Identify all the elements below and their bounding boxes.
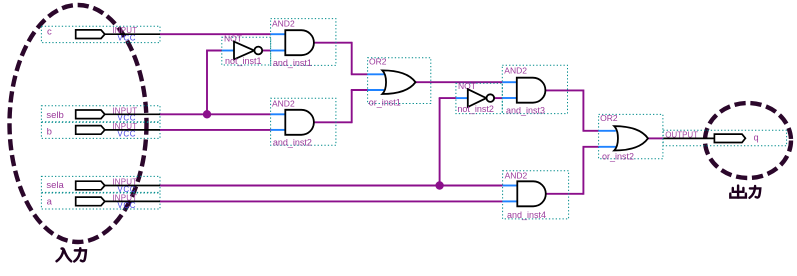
not_inst1 : triangle body <box>234 42 254 60</box>
svg-text:AND2: AND2 <box>505 171 528 181</box>
svg-text:b: b <box>47 126 52 137</box>
input pin selb : black stub wire <box>104 113 160 115</box>
svg-text:or_inst1: or_inst1 <box>369 97 401 107</box>
output group dashed ellipse <box>705 103 791 178</box>
and_inst3 : input stub B <box>502 97 517 99</box>
wire net sela : branch horizontal to not_inst2 input <box>439 97 456 99</box>
wire not_inst1 output to and_inst1 input B <box>262 50 271 52</box>
svg-text:and_inst2: and_inst2 <box>273 137 312 147</box>
output pin q : flag symbol <box>714 134 745 142</box>
label 入力 <box>57 248 86 261</box>
wire and_inst3 output to or_inst2 input A <box>583 130 599 132</box>
wire net sela : pin sela to and_inst4 input A <box>160 185 503 187</box>
and_inst3 : selection box <box>502 65 567 113</box>
svg-text:OR2: OR2 <box>600 113 618 123</box>
wire and_inst1 output to or_inst1 input A <box>351 73 368 75</box>
wire net selb : branch vertical to not_inst1 <box>206 51 208 115</box>
and_inst1 : input stub B <box>271 50 286 52</box>
input pin a : flag symbol <box>76 197 105 206</box>
wire net selb : branch horizontal to not_inst1 input <box>206 50 222 52</box>
and_inst2 : selection box <box>271 98 336 145</box>
and_inst2 : input stub A <box>271 113 286 115</box>
and_inst4 : selection box <box>503 171 569 219</box>
and_inst4 : gate body <box>517 181 546 206</box>
input pin b : selection box <box>41 122 160 138</box>
input pin sela : selection box <box>41 176 160 192</box>
and_inst1 : gate body <box>285 30 314 55</box>
wire and_inst3 output horizontal <box>545 89 583 91</box>
and_inst1 : selection box <box>271 19 336 66</box>
svg-text:and_inst1: and_inst1 <box>273 58 312 68</box>
input pin selb : flag symbol <box>76 110 105 119</box>
svg-text:and_inst4: and_inst4 <box>507 210 546 220</box>
input pin a : selection box <box>41 193 160 209</box>
not_inst2 : triangle body <box>468 89 487 107</box>
wire or_inst1 output to and_inst3 input A <box>416 81 503 83</box>
svg-text:c: c <box>47 26 52 37</box>
svg-text:sela: sela <box>46 180 64 191</box>
not_inst1 : input stub <box>222 50 234 52</box>
svg-text:AND2: AND2 <box>272 98 295 108</box>
not_inst1 : selection box <box>222 37 271 65</box>
or_inst2 : gate body <box>614 126 648 150</box>
input pin b : flag symbol <box>76 126 105 135</box>
svg-text:OR2: OR2 <box>369 56 387 66</box>
and_inst3 : input stub A <box>502 81 517 83</box>
wire and_inst4 output to or_inst2 input B <box>583 146 599 148</box>
or_inst1 : input stub B <box>368 89 384 91</box>
input pin c : flag symbol <box>76 30 105 39</box>
and_inst4 : input stub B <box>503 200 518 202</box>
input pin sela : black stub wire <box>104 185 160 187</box>
or_inst2 : input stub B <box>599 146 616 148</box>
wire and_inst2 output horizontal <box>314 121 352 123</box>
wire and_inst4 output vertical up <box>582 147 584 195</box>
input pin sela : flag symbol <box>76 181 105 190</box>
svg-text:selb: selb <box>46 110 63 121</box>
output pin q : selection box <box>663 130 786 146</box>
wire or_inst2 output to output pin q <box>648 137 663 139</box>
wire and_inst4 output horizontal <box>546 193 584 195</box>
input pin b : black stub wire <box>104 129 160 131</box>
input pin c : selection box <box>41 26 160 42</box>
or_inst1 : input stub A <box>368 73 384 75</box>
and_inst3 : gate body <box>517 78 546 103</box>
label 出力 <box>730 186 760 198</box>
and_inst2 : input stub B <box>271 129 286 131</box>
svg-text:q: q <box>754 133 759 143</box>
or_inst2 : selection box <box>599 114 663 158</box>
not_inst2 : input stub <box>456 97 469 99</box>
svg-text:not_inst1: not_inst1 <box>225 56 262 66</box>
input group dashed ellipse <box>10 5 147 242</box>
wire not_inst2 output to and_inst3 input B <box>494 97 502 99</box>
junction node selb/not_inst1 <box>203 110 211 118</box>
svg-text:AND2: AND2 <box>504 65 527 75</box>
svg-text:or_inst2: or_inst2 <box>602 152 634 162</box>
or_inst1 : gate body <box>382 70 415 94</box>
not_inst1 : bubble <box>254 47 262 55</box>
junction node sela/not_inst2 <box>435 181 443 189</box>
not_inst2 : selection box <box>456 83 502 113</box>
wire and_inst2 output vertical up <box>351 90 353 123</box>
or_inst1 : selection box <box>368 58 431 104</box>
input pin selb : selection box <box>41 106 160 122</box>
not_inst2 : bubble <box>487 94 495 102</box>
wire net a : pin a to and_inst4 input B <box>160 200 503 202</box>
or_inst2 : input stub A <box>599 130 616 132</box>
and_inst2 : gate body <box>285 110 314 135</box>
svg-text:NOT: NOT <box>224 34 242 44</box>
svg-text:AND2: AND2 <box>272 19 295 29</box>
wire net c : pin c to and_inst1 input A <box>160 33 271 35</box>
and_inst1 : input stub A <box>271 33 286 35</box>
and_inst4 : input stub A <box>503 185 518 187</box>
wire net sela : branch vertical to not_inst2 <box>439 98 441 185</box>
input pin a : black stub wire <box>104 200 160 202</box>
wire and_inst1 output vertical down <box>351 42 353 75</box>
svg-text:and_inst3: and_inst3 <box>506 105 545 115</box>
wire and_inst1 output horizontal <box>314 42 352 44</box>
wire net selb : pin selb to and_inst2 input A <box>160 113 271 115</box>
wire and_inst3 output vertical down <box>582 90 584 131</box>
wire and_inst2 output to or_inst1 input B <box>351 89 368 91</box>
svg-text:not_inst2: not_inst2 <box>457 104 494 114</box>
input pin c : black stub wire <box>104 33 160 35</box>
svg-text:a: a <box>47 197 53 208</box>
output pin q : black stub wire <box>663 137 714 139</box>
wire net b : pin b to and_inst2 input B <box>160 129 271 131</box>
